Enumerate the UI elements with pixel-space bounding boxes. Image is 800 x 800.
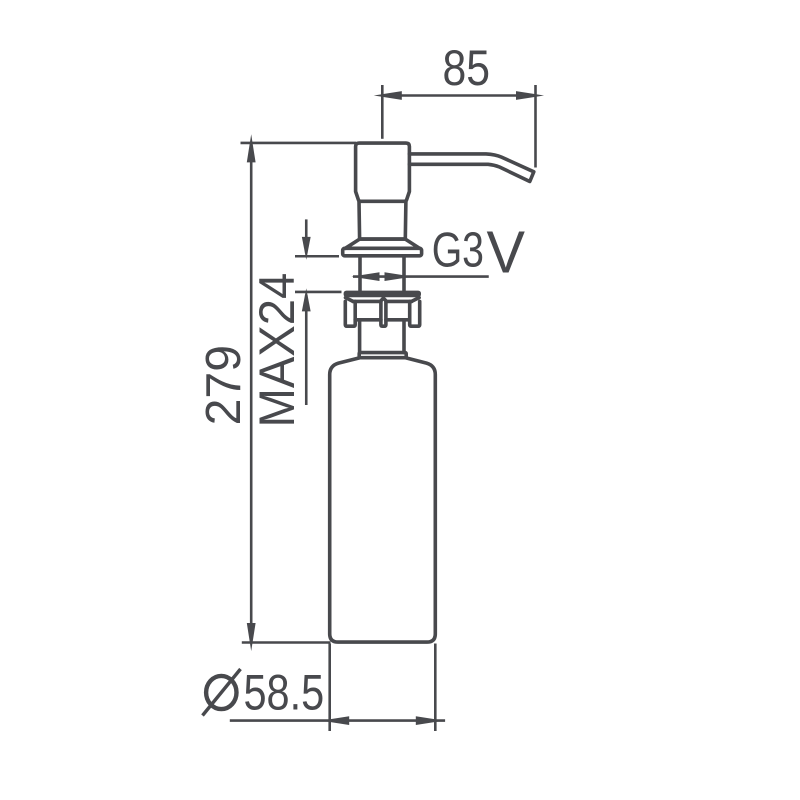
svg-text:G3: G3 [432,223,484,277]
svg-text:MAX24: MAX24 [249,273,305,428]
svg-text:58.5: 58.5 [244,665,325,721]
svg-text:279: 279 [196,345,251,426]
svg-text:85: 85 [443,40,491,96]
svg-text:V: V [487,219,526,285]
